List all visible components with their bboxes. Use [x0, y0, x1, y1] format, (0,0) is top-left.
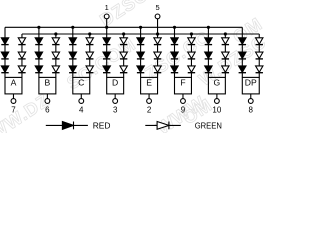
- svg-text:8: 8: [249, 106, 254, 115]
- svg-text:6: 6: [45, 106, 50, 115]
- svg-text:E: E: [146, 77, 152, 87]
- svg-text:A: A: [11, 77, 17, 87]
- svg-text:4: 4: [79, 106, 84, 115]
- svg-text:G: G: [214, 77, 221, 87]
- svg-text:10: 10: [212, 106, 221, 115]
- svg-text:GREEN: GREEN: [195, 120, 222, 130]
- svg-text:5: 5: [155, 3, 159, 12]
- svg-text:7: 7: [11, 106, 16, 115]
- svg-text:3: 3: [113, 106, 118, 115]
- svg-text:C: C: [78, 77, 84, 87]
- svg-text:B: B: [45, 77, 51, 87]
- svg-text:2: 2: [147, 106, 152, 115]
- svg-text:D: D: [112, 77, 118, 87]
- svg-text:F: F: [180, 77, 185, 87]
- svg-text:1: 1: [105, 3, 109, 12]
- svg-text:DP: DP: [245, 77, 257, 87]
- svg-text:9: 9: [181, 106, 186, 115]
- svg-text:RED: RED: [93, 120, 111, 130]
